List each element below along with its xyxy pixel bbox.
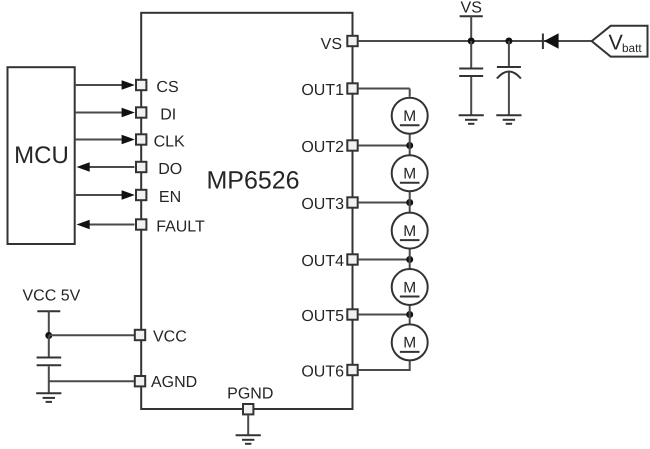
wire motor M5 to OUT6 xyxy=(358,359,411,370)
svg-text:AGND: AGND xyxy=(151,374,197,391)
label OUT1 xyxy=(301,82,344,99)
svg-text:VCC 5V: VCC 5V xyxy=(23,288,81,305)
svg-text:VS: VS xyxy=(321,36,342,53)
svg-text:M: M xyxy=(403,223,416,240)
wire VCC supply to VCC pin xyxy=(49,334,136,336)
pin OUT2 xyxy=(347,140,357,150)
ground for C1 xyxy=(459,115,484,124)
capacitor C2 (polarized) xyxy=(497,41,521,115)
motor M4 xyxy=(392,269,428,305)
svg-text:VS: VS xyxy=(461,0,482,17)
wire PGND to ground xyxy=(247,415,249,435)
svg-text:M: M xyxy=(403,108,416,125)
pin OUT3 xyxy=(347,197,357,207)
motor M1 xyxy=(392,98,428,134)
wire motor M2 to node OUT3 xyxy=(409,190,411,202)
diode D1 xyxy=(543,33,559,49)
svg-text:OUT6: OUT6 xyxy=(301,363,344,380)
label MCU xyxy=(14,142,69,169)
pin DI xyxy=(136,107,146,117)
label VCC xyxy=(153,328,187,345)
pin CS xyxy=(136,80,146,90)
svg-text:OUT3: OUT3 xyxy=(301,196,344,213)
svg-text:M: M xyxy=(403,335,416,352)
svg-text:OUT1: OUT1 xyxy=(301,82,344,99)
pin VCC xyxy=(135,330,145,340)
ground for PGND xyxy=(236,435,261,444)
wire C3 to AGND pin xyxy=(49,380,136,382)
wire motor M4 to node OUT5 xyxy=(409,304,411,315)
svg-text:MCU: MCU xyxy=(14,142,69,169)
svg-text:batt: batt xyxy=(622,41,642,55)
wire motor M1 to node OUT2 xyxy=(409,133,411,146)
wire motor M3 to node OUT4 xyxy=(409,248,411,260)
capacitor C1 xyxy=(459,41,483,115)
pin PGND xyxy=(243,404,253,414)
label OUT6 xyxy=(301,363,344,380)
junction node VCC xyxy=(45,332,52,339)
MCU block xyxy=(8,67,75,244)
pin CLK xyxy=(136,134,146,144)
capacitor C3 xyxy=(37,336,62,394)
label CLK xyxy=(154,134,185,151)
wire OUT2 to motor chain xyxy=(358,145,410,147)
junction dot on OUT4 net xyxy=(406,256,413,263)
pin FAULT xyxy=(136,219,146,229)
label PGND xyxy=(227,386,273,403)
svg-text:FAULT: FAULT xyxy=(156,219,205,236)
wire MCU to DI (arrow into IC) xyxy=(75,108,135,118)
svg-text:OUT2: OUT2 xyxy=(301,139,344,156)
motor M3 xyxy=(392,213,428,249)
supply symbol VCC 5V xyxy=(37,311,60,335)
svg-text:VCC: VCC xyxy=(153,328,187,345)
ground for C3 xyxy=(36,393,61,402)
wire OUT1 to motor chain xyxy=(358,89,410,97)
junction node A xyxy=(468,38,475,45)
wire FAULT to MCU (arrow out of IC) xyxy=(77,220,135,230)
svg-text:CLK: CLK xyxy=(154,134,185,151)
wire MCU to CS (arrow into IC) xyxy=(75,80,135,90)
label OUT3 xyxy=(301,196,344,213)
wire node OUT4 to motor M4 xyxy=(409,260,411,271)
svg-text:DO: DO xyxy=(158,161,182,178)
pin VS xyxy=(347,36,357,46)
junction node B xyxy=(505,38,512,45)
pin OUT6 xyxy=(347,365,357,375)
label OUT5 xyxy=(301,308,344,325)
supply symbol VS net xyxy=(460,0,483,41)
svg-text:OUT4: OUT4 xyxy=(301,253,344,270)
wire OUT4 to motor chain xyxy=(358,259,410,261)
wire node OUT2 to motor M2 xyxy=(409,146,411,157)
svg-text:MP6526: MP6526 xyxy=(206,167,299,195)
pin AGND xyxy=(135,376,145,386)
motor M5 xyxy=(392,324,428,360)
svg-text:DI: DI xyxy=(160,107,176,124)
wire MCU to EN (arrow into IC) xyxy=(75,190,135,200)
wire OUT5 to motor chain xyxy=(358,314,410,316)
svg-text:PGND: PGND xyxy=(227,386,273,403)
label OUT4 xyxy=(301,253,344,270)
label VCC 5V xyxy=(23,288,81,305)
wire node OUT5 to motor M5 xyxy=(409,315,411,326)
motor M2 xyxy=(392,155,428,191)
ground for C2 xyxy=(496,115,521,124)
IC U1 MP6526 outline xyxy=(141,13,352,409)
pin OUT1 xyxy=(347,83,357,93)
label AGND xyxy=(151,374,197,391)
pin DO xyxy=(136,162,146,172)
wire VS rail xyxy=(358,40,592,42)
wire MCU to CLK (arrow into IC) xyxy=(75,135,135,145)
label EN xyxy=(159,189,181,206)
wire node OUT3 to motor M3 xyxy=(409,203,411,214)
net flag Vbatt xyxy=(592,26,648,57)
label VS xyxy=(321,36,342,53)
svg-text:EN: EN xyxy=(159,189,181,206)
junction dot on OUT2 net xyxy=(406,142,413,149)
label FAULT xyxy=(156,219,205,236)
pin OUT4 xyxy=(347,254,357,264)
label DO xyxy=(158,161,182,178)
svg-text:OUT5: OUT5 xyxy=(301,308,344,325)
label MP6526 xyxy=(206,167,299,195)
svg-text:M: M xyxy=(403,279,416,296)
label CS xyxy=(156,79,178,96)
svg-text:CS: CS xyxy=(156,79,178,96)
wire DO to MCU (arrow out of IC) xyxy=(77,162,135,172)
wire OUT3 to motor chain xyxy=(358,202,410,204)
junction dot on OUT5 net xyxy=(406,311,413,318)
label OUT2 xyxy=(301,139,344,156)
junction dot on OUT3 net xyxy=(406,199,413,206)
svg-text:M: M xyxy=(403,166,416,183)
label DI xyxy=(160,107,176,124)
pin OUT5 xyxy=(347,309,357,319)
pin EN xyxy=(136,190,146,200)
